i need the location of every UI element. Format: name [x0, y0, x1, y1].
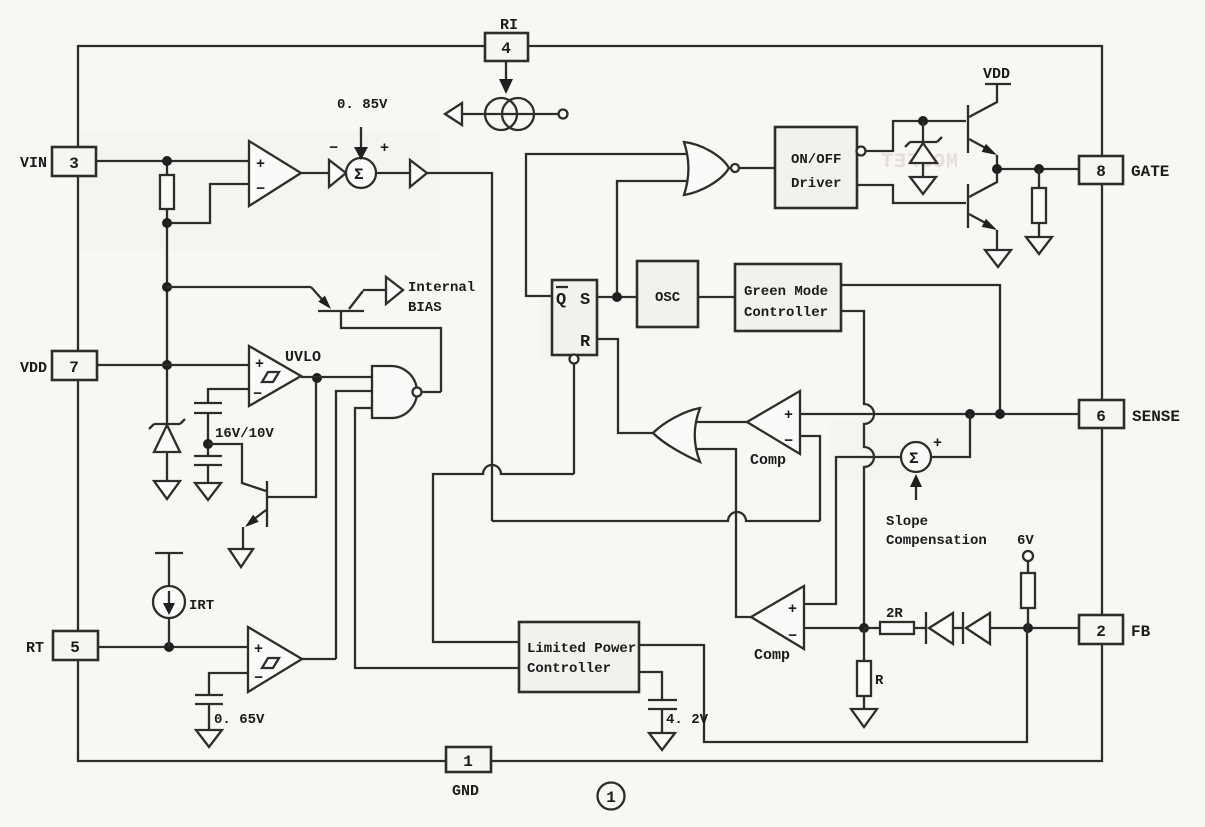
flip-flop U8	[552, 280, 597, 355]
ground under C4	[196, 730, 222, 747]
junction RT node	[164, 642, 174, 652]
transistor Q5 (upper driver)	[967, 105, 969, 153]
diode D3	[925, 612, 927, 644]
svg-text:S: S	[580, 291, 590, 310]
ground under Q6	[985, 250, 1011, 267]
junction divider tap	[162, 218, 172, 228]
svg-text:−: −	[788, 628, 797, 645]
nor gate U7	[684, 142, 729, 195]
svg-text:3: 3	[69, 155, 79, 173]
junction bias tap	[162, 282, 172, 292]
wire U6 minus to 0.65V cap	[209, 673, 248, 695]
junction 6V node	[1023, 623, 1033, 633]
ground under D2	[910, 177, 936, 194]
wire Comp2 minus to FB node	[804, 627, 864, 629]
transistor Q4 (internal bias)	[318, 310, 364, 312]
diode D4	[962, 612, 964, 644]
svg-text:Green Mode: Green Mode	[744, 284, 828, 300]
arrow RI to current source	[505, 61, 507, 81]
junction VIN node	[162, 156, 172, 166]
ground under D1	[154, 481, 180, 499]
op-amp Comp2 (FB comparator)	[751, 586, 804, 649]
svg-text:+: +	[380, 140, 389, 157]
svg-text:VIN: VIN	[20, 155, 47, 172]
svg-text:SENSE: SENSE	[1132, 408, 1180, 426]
osc box U9	[637, 261, 698, 327]
capacitor C3 (4.2V)	[648, 699, 677, 701]
svg-text:0. 65V: 0. 65V	[214, 712, 265, 728]
svg-text:RI: RI	[500, 17, 518, 34]
svg-text:−: −	[253, 386, 262, 403]
svg-text:4. 2V: 4. 2V	[666, 712, 709, 728]
IC boundary	[78, 46, 1102, 761]
pin 1 box (GND)	[446, 747, 491, 772]
capacitor C1	[194, 402, 222, 404]
resistor (6V pullup)	[1027, 561, 1029, 573]
wire LPC out2 to 4.2V cap	[639, 672, 662, 700]
svg-text:RT: RT	[26, 640, 44, 657]
op-amp Comp1 (PWM comparator)	[747, 391, 800, 454]
wire R input from OR gate	[597, 339, 653, 433]
junction S node	[612, 292, 622, 302]
svg-text:+: +	[255, 356, 264, 373]
wire bias tap	[167, 286, 311, 288]
wire UVLO minus to caps	[208, 389, 249, 403]
svg-text:−: −	[329, 140, 338, 157]
wire NAND input3 to LPC	[355, 408, 519, 668]
junction gate resistor node	[1034, 164, 1044, 174]
svg-text:Compensation: Compensation	[886, 533, 987, 549]
pin 6 box (SENSE)	[1079, 400, 1124, 428]
pin 8 box (GATE)	[1079, 156, 1123, 184]
ground under gate resistor	[1026, 237, 1052, 254]
summer S2 (slope compensation)	[901, 442, 931, 472]
current source IRT	[155, 552, 183, 554]
junction VDD node	[162, 360, 172, 370]
svg-text:+: +	[254, 641, 263, 658]
limited power controller box U13	[519, 622, 639, 692]
wire Q4 base to NAND output node	[341, 311, 441, 392]
ground under C2	[195, 483, 221, 500]
capacitor C4 (0.65V)	[195, 694, 223, 696]
svg-text:OSC: OSC	[655, 290, 681, 306]
resistor (VIN divider)	[160, 175, 174, 209]
wire Comp1 plus to SENSE	[800, 413, 1079, 415]
wire Comp1 minus to ramp	[800, 436, 820, 521]
wire summer out	[376, 172, 410, 174]
summer S1 (0.85V offset)	[346, 158, 376, 188]
transistor Q3	[266, 481, 268, 527]
svg-text:Driver: Driver	[791, 176, 841, 192]
pin 2 box (FB)	[1079, 615, 1123, 644]
wire divider tap to error amp - input	[167, 184, 249, 223]
buffer U2	[329, 160, 346, 187]
resistor R (FB lower)	[863, 628, 865, 661]
hysteresis symbol U6	[262, 658, 279, 668]
wire gate node to pin 8	[997, 168, 1079, 170]
zener D1 on VIN bus	[154, 423, 180, 425]
svg-text:−: −	[254, 670, 263, 687]
current source CS1	[462, 113, 559, 115]
junction zener node	[918, 116, 928, 126]
svg-text:Comp: Comp	[754, 647, 790, 664]
wire driver top out to Q5 base	[866, 121, 966, 151]
svg-text:+: +	[788, 601, 797, 618]
svg-text:1: 1	[606, 789, 616, 807]
svg-text:BIAS: BIAS	[408, 300, 442, 316]
ground under R	[851, 709, 877, 727]
junction gate node	[992, 164, 1002, 174]
wire error amp out	[301, 172, 329, 174]
svg-text:VDD: VDD	[20, 360, 47, 377]
wire left VIN bus	[166, 161, 168, 424]
svg-text:−: −	[256, 181, 265, 198]
svg-text:16V/10V: 16V/10V	[215, 426, 274, 442]
svg-text:GATE: GATE	[1131, 163, 1169, 181]
svg-text:GND: GND	[452, 783, 479, 800]
wire cap node to Q3 collector	[208, 444, 266, 491]
wire between caps	[207, 413, 209, 456]
wire ramp signal down	[427, 173, 492, 521]
arrow 0.85V into summer	[360, 127, 362, 149]
wire FB node to diodes	[864, 627, 926, 629]
wire FF Qbar to NOR top input	[526, 154, 687, 296]
pin 5 box (RT)	[53, 631, 98, 660]
pin 7 box (VDD)	[52, 351, 97, 380]
wire VIN pin to error amp + input	[96, 160, 249, 162]
svg-text:+: +	[256, 156, 265, 173]
svg-text:Q: Q	[556, 291, 566, 310]
wire FF Qbar bubble to LPC input (hop at x492)	[433, 364, 574, 642]
svg-text:Controller: Controller	[527, 661, 611, 677]
zener D2	[922, 121, 924, 142]
wire VDD pin to UVLO	[97, 364, 249, 366]
op-amp U6 (0.65V comparator)	[248, 627, 302, 692]
wire NOR out to driver	[739, 167, 775, 169]
svg-text:2: 2	[1096, 623, 1106, 641]
resistor (gate pulldown)	[1038, 169, 1040, 188]
wire S output to OSC	[597, 296, 637, 298]
on/off driver box U11	[775, 127, 857, 208]
svg-text:4: 4	[501, 40, 511, 58]
transistor Q6 (lower driver)	[967, 184, 969, 228]
buffer U3	[410, 160, 427, 187]
wire driver bottom out to Q6 base	[857, 185, 966, 203]
wire S2 to Comp2 plus	[804, 457, 901, 604]
nand gate U5	[372, 366, 417, 418]
svg-text:6V: 6V	[1017, 533, 1034, 549]
svg-text:Controller: Controller	[744, 305, 828, 321]
arrow slope comp into S2	[915, 486, 917, 500]
wire S node to NOR bottom input	[617, 181, 687, 297]
svg-text:R: R	[580, 333, 591, 352]
op-amp U1 (VIN error amp)	[249, 141, 301, 206]
wire RT pin to comparator	[98, 646, 248, 648]
svg-text:Σ: Σ	[354, 166, 364, 184]
VDD rail bar	[985, 83, 1011, 85]
op-amp UVLO	[249, 346, 301, 406]
svg-text:6: 6	[1096, 408, 1106, 426]
wire OSC to GMC	[698, 296, 735, 298]
svg-text:1: 1	[463, 753, 473, 771]
green mode controller box U10	[735, 264, 841, 331]
wire OR bottom input from Comp2	[697, 449, 751, 617]
junction sense wire a	[965, 409, 975, 419]
hysteresis symbol UVLO	[262, 372, 279, 382]
svg-text:8: 8	[1096, 163, 1106, 181]
svg-text:UVLO: UVLO	[285, 349, 321, 366]
wire ramp to PWM comparator minus (hop at x737)	[492, 512, 820, 521]
junction UVLO output	[312, 373, 322, 383]
wire D4 to FB pin	[990, 627, 1079, 629]
figure number 1	[598, 783, 625, 810]
ground under C3	[649, 733, 675, 750]
svg-text:Internal: Internal	[408, 280, 475, 296]
wire NAND output	[422, 391, 441, 393]
resistor 2R	[880, 622, 914, 634]
svg-text:VDD: VDD	[983, 66, 1010, 83]
6V terminal	[1023, 551, 1033, 561]
svg-text:R: R	[875, 673, 884, 689]
wire LPC out1 to FB node	[639, 629, 1027, 742]
buffer U4 (internal bias)	[386, 277, 403, 304]
capacitor C2	[194, 455, 222, 457]
wire GMC out2 to FB node (hops)	[841, 311, 874, 628]
svg-text:FB: FB	[1131, 623, 1151, 641]
svg-text:ON/OFF: ON/OFF	[791, 152, 841, 168]
svg-text:−: −	[784, 433, 793, 450]
ground under Q3	[229, 549, 253, 567]
svg-text:5: 5	[70, 639, 80, 657]
junction cap node	[203, 439, 213, 449]
svg-text:+: +	[784, 407, 793, 424]
wire U6 output to NAND input2	[302, 658, 336, 660]
wire S2 to sense node	[931, 414, 970, 457]
wire OR top input from Comp1	[697, 421, 747, 423]
junction FB divider node	[859, 623, 869, 633]
pin 3 box (VIN)	[52, 147, 96, 176]
wire UVLO out to NAND	[301, 376, 372, 378]
svg-text:Comp: Comp	[750, 452, 786, 469]
or gate U12 (reset)	[653, 408, 700, 462]
svg-text:2R: 2R	[886, 606, 903, 622]
svg-text:0. 85V: 0. 85V	[337, 97, 388, 113]
wire NAND input2 from 0.65V comparator	[336, 391, 372, 659]
svg-text:IRT: IRT	[189, 598, 214, 614]
svg-text:+: +	[933, 435, 942, 452]
pin 4 box	[485, 33, 528, 61]
svg-text:Limited Power: Limited Power	[527, 641, 636, 657]
wire D3 to D4	[953, 627, 963, 629]
svg-text:7: 7	[69, 359, 79, 377]
svg-text:Σ: Σ	[909, 450, 919, 468]
junction sense wire b	[995, 409, 1005, 419]
wire GMC out1 to SENSE node	[841, 285, 1000, 414]
svg-text:Slope: Slope	[886, 514, 928, 530]
